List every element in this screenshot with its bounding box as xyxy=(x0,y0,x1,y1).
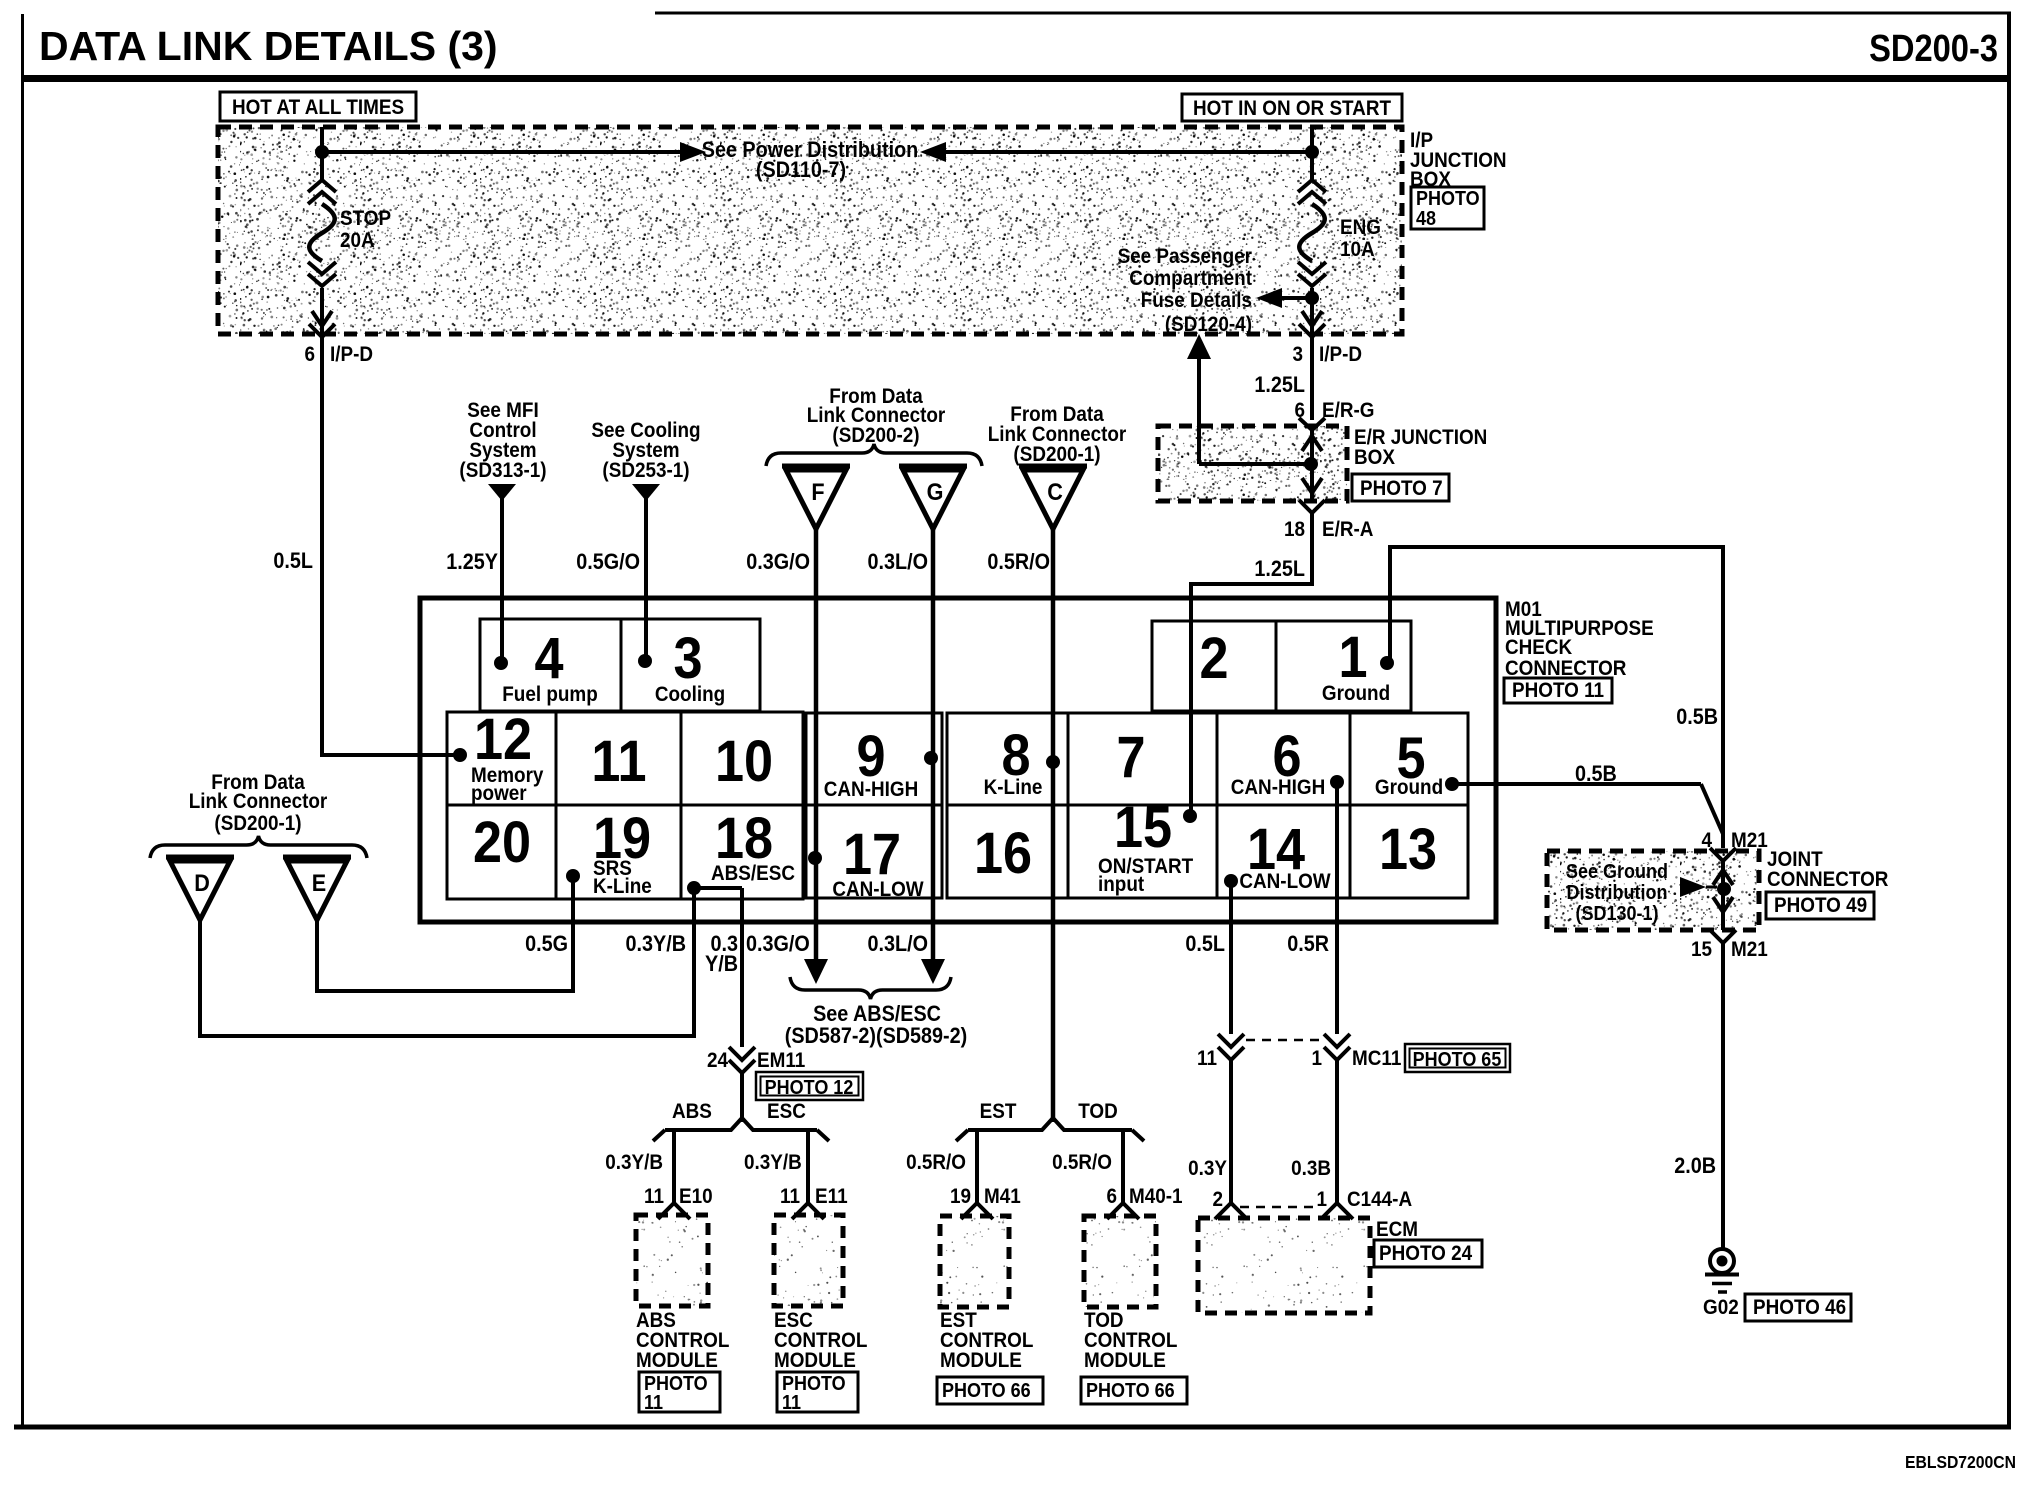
svg-text:CAN-HIGH: CAN-HIGH xyxy=(824,778,918,801)
svg-text:0.5B: 0.5B xyxy=(1676,705,1718,729)
svg-text:0.5R/O: 0.5R/O xyxy=(906,1151,966,1174)
svg-text:SD200-3: SD200-3 xyxy=(1869,27,1998,70)
svg-text:power: power xyxy=(471,782,527,805)
svg-text:0.5G: 0.5G xyxy=(525,932,568,956)
svg-text:Fuel pump: Fuel pump xyxy=(502,683,598,706)
svg-text:Y/B: Y/B xyxy=(705,952,738,976)
svg-text:11: 11 xyxy=(780,1185,800,1208)
svg-text:18: 18 xyxy=(1284,518,1305,541)
svg-text:2.0B: 2.0B xyxy=(1674,1154,1716,1178)
svg-text:C: C xyxy=(1047,478,1063,505)
svg-text:E/R-G: E/R-G xyxy=(1322,399,1374,422)
svg-text:19: 19 xyxy=(950,1185,971,1208)
svg-text:11: 11 xyxy=(782,1392,801,1414)
svg-text:10: 10 xyxy=(715,728,773,793)
svg-text:0.3G/O: 0.3G/O xyxy=(746,932,810,956)
svg-text:MC11: MC11 xyxy=(1352,1047,1401,1070)
svg-text:4: 4 xyxy=(534,625,563,690)
svg-text:0.5B: 0.5B xyxy=(1575,762,1617,786)
svg-text:CAN-HIGH: CAN-HIGH xyxy=(1231,776,1325,799)
svg-text:Ground: Ground xyxy=(1322,682,1390,705)
svg-text:HOT IN ON OR START: HOT IN ON OR START xyxy=(1193,97,1391,120)
svg-text:(SD120-4): (SD120-4) xyxy=(1165,313,1252,336)
svg-text:13: 13 xyxy=(1379,816,1437,881)
svg-text:PHOTO 24: PHOTO 24 xyxy=(1379,1242,1472,1265)
svg-text:HOT AT ALL TIMES: HOT AT ALL TIMES xyxy=(232,96,404,119)
svg-text:10A: 10A xyxy=(1340,238,1375,261)
svg-text:1: 1 xyxy=(1311,1047,1322,1070)
svg-text:M41: M41 xyxy=(984,1185,1021,1208)
svg-text:D: D xyxy=(194,869,210,896)
svg-text:48: 48 xyxy=(1416,208,1436,230)
svg-text:PHOTO 66: PHOTO 66 xyxy=(942,1380,1031,1402)
svg-text:STOP: STOP xyxy=(340,207,391,230)
svg-text:CAN-LOW: CAN-LOW xyxy=(1239,870,1330,893)
svg-text:1.25L: 1.25L xyxy=(1254,557,1305,581)
svg-text:E11: E11 xyxy=(815,1185,848,1208)
svg-text:PHOTO 11: PHOTO 11 xyxy=(1512,679,1604,702)
svg-text:PHOTO 12: PHOTO 12 xyxy=(765,1077,854,1099)
svg-text:7: 7 xyxy=(1116,724,1145,789)
svg-text:MODULE: MODULE xyxy=(940,1349,1022,1372)
svg-text:20: 20 xyxy=(473,809,531,874)
svg-text:12: 12 xyxy=(474,706,532,771)
svg-text:1: 1 xyxy=(1316,1188,1327,1211)
svg-text:E10: E10 xyxy=(679,1185,713,1208)
svg-text:CHECK: CHECK xyxy=(1505,636,1573,659)
svg-text:ABS: ABS xyxy=(672,1100,712,1123)
svg-text:Ground: Ground xyxy=(1375,776,1443,799)
svg-text:I/P-D: I/P-D xyxy=(1319,343,1362,366)
svg-text:6: 6 xyxy=(1106,1185,1117,1208)
svg-text:(SD200-1): (SD200-1) xyxy=(214,812,301,835)
svg-text:11: 11 xyxy=(591,728,646,793)
svg-text:11: 11 xyxy=(1197,1047,1217,1070)
svg-text:EBLSD7200CN: EBLSD7200CN xyxy=(1905,1452,2016,1472)
svg-text:C144-A: C144-A xyxy=(1347,1188,1412,1211)
svg-text:Cooling: Cooling xyxy=(655,683,725,706)
svg-text:0.3Y/B: 0.3Y/B xyxy=(626,932,686,956)
svg-text:ECM: ECM xyxy=(1376,1218,1418,1241)
svg-text:1.25L: 1.25L xyxy=(1254,373,1305,397)
svg-text:24: 24 xyxy=(707,1049,728,1072)
svg-text:2: 2 xyxy=(1199,625,1228,690)
svg-text:G02: G02 xyxy=(1703,1296,1739,1319)
svg-text:0.5R: 0.5R xyxy=(1287,932,1329,956)
svg-text:0.3G/O: 0.3G/O xyxy=(746,550,810,574)
svg-text:PHOTO: PHOTO xyxy=(1416,188,1480,210)
svg-text:CONNECTOR: CONNECTOR xyxy=(1767,868,1889,891)
svg-text:E/R-A: E/R-A xyxy=(1322,518,1373,541)
svg-text:See ABS/ESC: See ABS/ESC xyxy=(813,1002,941,1026)
svg-text:(SD313-1): (SD313-1) xyxy=(459,459,546,482)
svg-text:Compartment: Compartment xyxy=(1129,267,1252,290)
svg-text:Link Connector: Link Connector xyxy=(189,790,328,813)
svg-text:MODULE: MODULE xyxy=(774,1349,856,1372)
svg-text:K-Line: K-Line xyxy=(984,776,1043,799)
svg-text:3: 3 xyxy=(1292,343,1303,366)
svg-text:0.3B: 0.3B xyxy=(1291,1157,1331,1180)
svg-text:MODULE: MODULE xyxy=(1084,1349,1166,1372)
svg-text:11: 11 xyxy=(644,1185,664,1208)
svg-text:EM11: EM11 xyxy=(757,1049,805,1072)
svg-text:(SD253-1): (SD253-1) xyxy=(602,459,689,482)
svg-text:(SD587-2)(SD589-2): (SD587-2)(SD589-2) xyxy=(785,1024,967,1048)
svg-text:1.25Y: 1.25Y xyxy=(446,550,498,574)
svg-text:0.3Y/B: 0.3Y/B xyxy=(744,1151,802,1174)
svg-text:See Ground: See Ground xyxy=(1566,861,1668,883)
svg-text:ENG: ENG xyxy=(1340,216,1381,239)
svg-text:(SD200-2): (SD200-2) xyxy=(832,424,919,447)
svg-text:TOD: TOD xyxy=(1078,1100,1118,1123)
svg-text:0.3L/O: 0.3L/O xyxy=(868,550,928,574)
svg-text:(SD200-1): (SD200-1) xyxy=(1013,443,1100,466)
svg-text:ESC: ESC xyxy=(767,1100,806,1123)
svg-text:ABS/ESC: ABS/ESC xyxy=(711,862,795,885)
svg-text:Distribution: Distribution xyxy=(1567,882,1668,904)
svg-text:16: 16 xyxy=(974,820,1032,885)
svg-text:M21: M21 xyxy=(1731,938,1768,961)
svg-text:3: 3 xyxy=(673,625,702,690)
svg-text:PHOTO 49: PHOTO 49 xyxy=(1774,894,1867,917)
svg-text:PHOTO 65: PHOTO 65 xyxy=(1413,1049,1502,1071)
svg-text:PHOTO 7: PHOTO 7 xyxy=(1360,477,1443,500)
svg-text:15: 15 xyxy=(1114,794,1172,859)
svg-text:2: 2 xyxy=(1212,1188,1223,1211)
svg-text:input: input xyxy=(1098,873,1144,896)
svg-text:PHOTO 66: PHOTO 66 xyxy=(1086,1380,1175,1402)
svg-text:18: 18 xyxy=(715,805,773,870)
svg-text:Fuse Details: Fuse Details xyxy=(1141,289,1252,312)
svg-text:11: 11 xyxy=(644,1392,663,1414)
svg-text:EST: EST xyxy=(980,1100,1017,1123)
svg-text:20A: 20A xyxy=(340,229,375,252)
svg-text:0.5L: 0.5L xyxy=(1185,932,1225,956)
svg-text:17: 17 xyxy=(843,821,901,886)
svg-text:See Passenger: See Passenger xyxy=(1118,245,1253,268)
svg-text:MODULE: MODULE xyxy=(636,1349,718,1372)
svg-text:K-Line: K-Line xyxy=(593,875,652,898)
svg-text:6: 6 xyxy=(304,343,315,366)
svg-text:0.5R/O: 0.5R/O xyxy=(987,550,1050,574)
svg-text:DATA LINK DETAILS (3): DATA LINK DETAILS (3) xyxy=(39,23,498,69)
svg-text:(SD130-1): (SD130-1) xyxy=(1576,903,1659,925)
svg-text:1: 1 xyxy=(1338,624,1367,689)
svg-text:0.3Y: 0.3Y xyxy=(1188,1157,1227,1180)
svg-text:0.3L/O: 0.3L/O xyxy=(868,932,928,956)
svg-text:15: 15 xyxy=(1691,938,1712,961)
svg-text:(SD110-7): (SD110-7) xyxy=(756,158,846,182)
svg-text:F: F xyxy=(811,478,824,505)
svg-text:M40-1: M40-1 xyxy=(1129,1185,1183,1208)
svg-text:0.5L: 0.5L xyxy=(273,549,313,573)
svg-text:0.5G/O: 0.5G/O xyxy=(576,550,640,574)
svg-text:PHOTO 46: PHOTO 46 xyxy=(1753,1296,1846,1319)
svg-text:I/P-D: I/P-D xyxy=(330,343,373,366)
svg-text:BOX: BOX xyxy=(1354,446,1396,469)
svg-text:CAN-LOW: CAN-LOW xyxy=(832,878,923,901)
svg-text:G: G xyxy=(927,478,944,505)
svg-text:0.5R/O: 0.5R/O xyxy=(1052,1151,1112,1174)
svg-text:E: E xyxy=(312,869,326,896)
svg-text:0.3Y/B: 0.3Y/B xyxy=(605,1151,663,1174)
